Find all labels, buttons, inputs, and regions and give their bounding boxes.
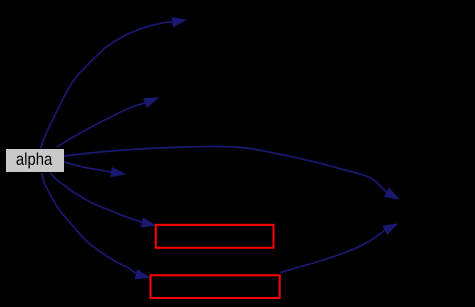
wire: edge red box 2 to far right node [281,231,385,273]
arrowhead of edge alpha to upper-middle node [143,97,159,108]
arrowhead of edge alpha to red box 2 [135,269,151,279]
wire: edge alpha to far right node (long curve) [64,146,387,192]
wire: edge alpha to red box 2 [42,173,136,274]
wire: edge alpha to top node [41,22,173,149]
arrowhead of edge alpha to mid-left node [110,167,126,178]
node red box 1 [156,225,274,248]
arrowhead of edge alpha to far right node [384,188,400,200]
wire: edge alpha to upper-middle node [57,103,146,147]
arrowhead of edge alpha to red box 1 [141,217,157,227]
node red box 2 [151,275,280,298]
arrowhead of edge red box 2 to far right node [382,223,398,235]
wire: edge alpha to red box 1 [50,173,142,223]
arrowhead of edge alpha to top node [171,17,187,27]
wire: edge alpha to mid-left node [64,162,111,172]
node alpha [6,149,64,172]
